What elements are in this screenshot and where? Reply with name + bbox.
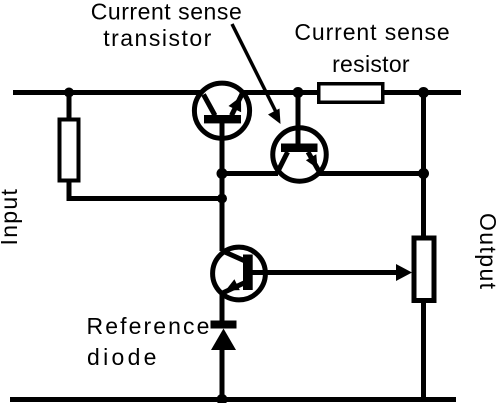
wire input resistor top stub [67,93,72,121]
wire Q3 emitter to diode [220,292,225,324]
svg-text:Reference: Reference [87,313,212,339]
node input rail / R1 junction [64,88,74,98]
label pointer arrowhead [268,109,281,125]
transistor Q3 error amplifier [213,247,399,300]
transistor Q1 pass [194,83,249,251]
svg-text:Output: Output [475,213,500,290]
reference diode D1 [211,321,237,351]
wire output vertical upper [421,93,426,239]
svg-text:diode: diode [87,344,160,370]
wire input resistor bottom to Q1 base node [69,181,224,199]
node Q1 base / R1 wire junction [217,194,227,204]
svg-text:resistor: resistor [332,51,410,77]
resistor R2 current sense [319,84,383,103]
wire bottom rail [10,397,456,402]
node output / mid wire junction [418,168,429,179]
svg-text:Input: Input [0,188,22,246]
svg-text:Current sense: Current sense [294,19,450,45]
wire top rail middle segment [240,90,318,95]
node diode / bottom rail junction [217,394,228,403]
label pointer line to Q2 [232,24,276,112]
transistor Q2 current sense [273,93,327,182]
wire top rail left segment [13,90,206,95]
potentiometer R3 output adjust [414,238,434,301]
wire output vertical lower [421,300,426,400]
node Q2 base / rail junction [293,87,304,98]
potentiometer wiper arrowhead [396,264,412,281]
resistor R1 input divider [60,120,79,181]
node Q1 base / mid wire junction [217,168,228,179]
svg-text:transistor: transistor [103,25,213,51]
wire mid horizontal right [319,171,424,176]
node output rail top junction [418,87,429,98]
svg-text:Current sense: Current sense [91,0,243,25]
wire top rail right segment [384,90,461,95]
wire mid horizontal left [222,171,278,176]
wire diode anode to bottom rail [220,348,225,400]
